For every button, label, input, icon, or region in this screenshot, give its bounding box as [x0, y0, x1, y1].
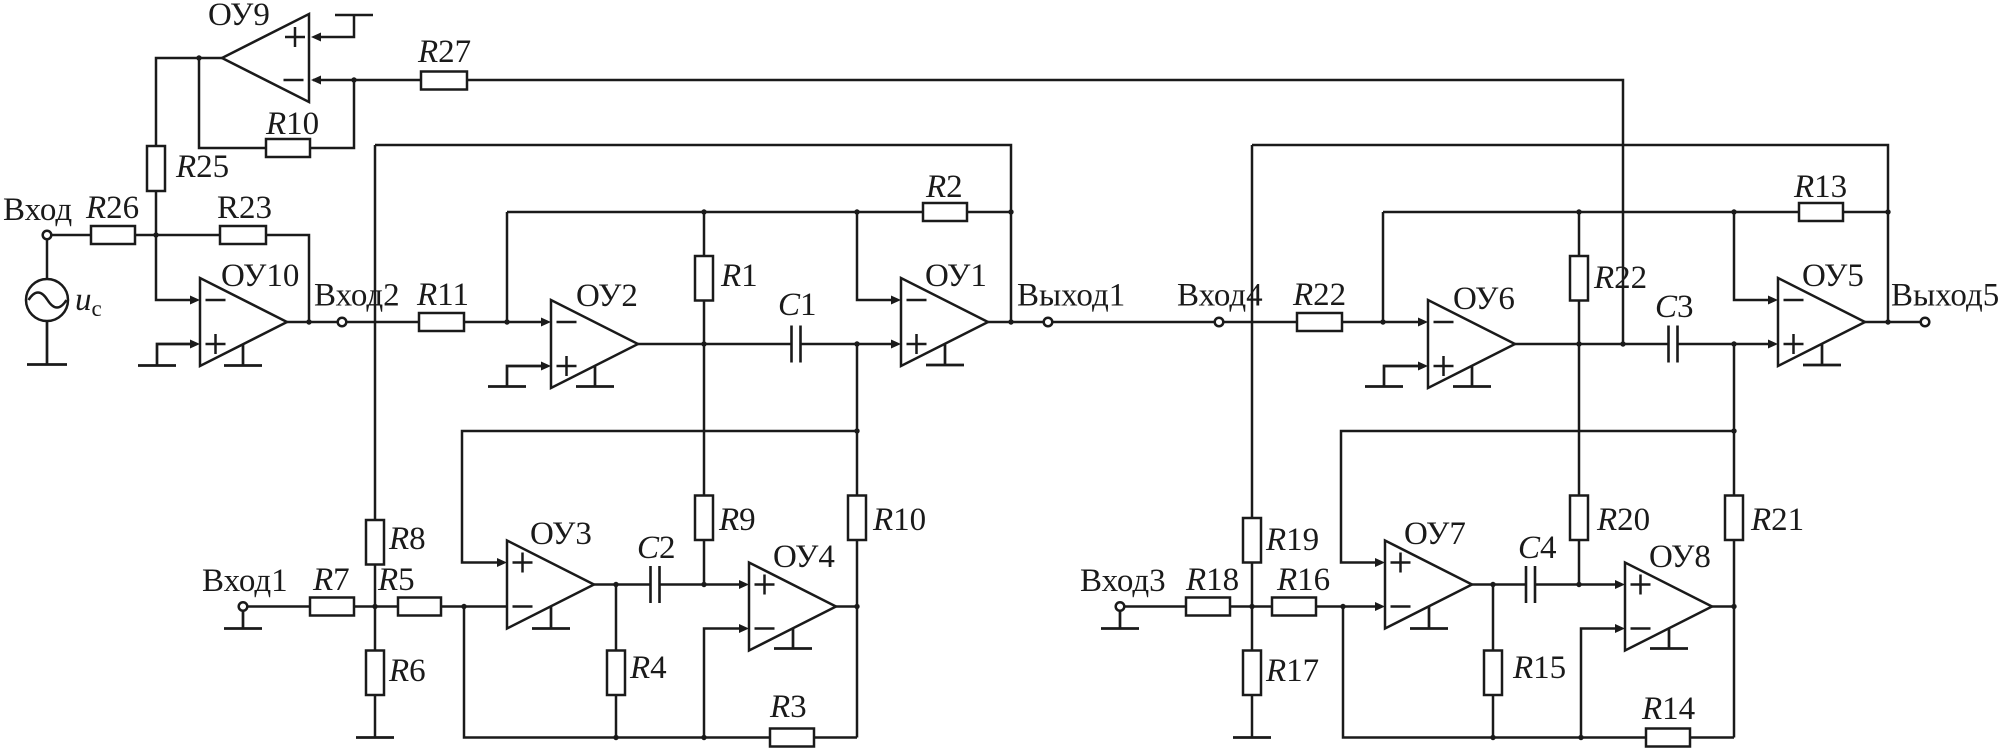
node OU5 output / R13 vertical	[1885, 319, 1890, 324]
resistor R5	[398, 598, 441, 616]
wire feedback to OU7 plus input	[1341, 431, 1734, 567]
resistor R18	[1186, 598, 1230, 616]
resistor R25	[147, 146, 165, 191]
svg-text:R20: R20	[1596, 502, 1650, 538]
wire R15 vertical	[1492, 585, 1495, 738]
label C3	[1655, 289, 1694, 325]
vertical R10 chain x=857	[856, 344, 859, 738]
node R25/input line	[153, 232, 158, 237]
node R19 bottom / input line	[1249, 604, 1254, 609]
vertical R21 chain x=1734	[1733, 344, 1736, 738]
wire OU3 output to C2	[594, 583, 651, 586]
vertical R19/R17 chain x=1252	[1251, 145, 1254, 738]
svg-text:Выход1: Выход1	[1017, 278, 1125, 314]
label R11	[416, 277, 469, 313]
label Vhod2	[314, 278, 400, 314]
svg-text:Выход5: Выход5	[1891, 278, 1999, 314]
node feedback / R10 vertical	[854, 428, 859, 433]
wire C2 to OU4 plus input	[660, 580, 750, 589]
ground under OU3	[532, 607, 570, 629]
wire OU9 minus input arrow	[311, 76, 321, 85]
wire node down to left rail	[464, 607, 857, 738]
op-amp U10 (OU10)	[200, 278, 287, 366]
svg-text:R26: R26	[85, 190, 139, 226]
wire R10 left leg	[199, 58, 266, 148]
op-amp U2 (OU2)	[551, 300, 638, 388]
label R4	[629, 650, 667, 686]
label OU4	[773, 539, 835, 575]
resistor R9	[695, 496, 713, 541]
label R23	[217, 190, 272, 226]
wire OU2 feedback vertical to top line	[506, 212, 509, 322]
ground under R17	[1233, 736, 1271, 739]
label R22 horizontal	[1292, 277, 1346, 313]
ground under OU8	[1650, 629, 1688, 649]
label R22 vertical	[1593, 260, 1647, 296]
op-amp U4 (OU4)	[749, 563, 836, 651]
vertical R22b/R20 chain x=1579	[1578, 212, 1581, 585]
svg-text:R7: R7	[312, 562, 350, 598]
svg-text:Вход1: Вход1	[202, 563, 288, 599]
svg-text:R23: R23	[217, 190, 272, 226]
label R9	[718, 502, 756, 538]
wire feedback to OU3 plus input	[462, 431, 857, 567]
wire OU5 minus branch from top line	[1734, 212, 1778, 305]
wire R10 right leg to OU9 minus node	[310, 80, 354, 148]
svg-text:C4: C4	[1518, 530, 1557, 566]
svg-text:R18: R18	[1185, 562, 1239, 598]
capacitor C2	[651, 566, 660, 603]
wire C3 to OU5 plus input	[1678, 340, 1779, 349]
ground step at OU10 plus input	[138, 340, 200, 366]
svg-text:uc: uc	[75, 282, 102, 321]
svg-text:R4: R4	[629, 650, 667, 686]
resistor R23	[220, 226, 266, 244]
svg-text:R19: R19	[1265, 522, 1319, 558]
resistor R21	[1725, 496, 1743, 541]
label OU6	[1453, 281, 1515, 317]
svg-text:R22: R22	[1292, 277, 1346, 313]
node R2 right / output vertical	[1008, 209, 1013, 214]
label R20	[1596, 502, 1650, 538]
wire OU8 minus branch to rail	[1581, 624, 1625, 738]
wire R16 to OU7 minus input	[1316, 602, 1385, 611]
svg-text:R16: R16	[1276, 562, 1330, 598]
svg-text:R22: R22	[1593, 260, 1647, 296]
label OU9	[208, 0, 270, 33]
label R17	[1265, 653, 1319, 689]
svg-text:R9: R9	[718, 502, 756, 538]
ground step at OU2 plus input	[488, 362, 551, 387]
terminal Vyhod5	[1921, 318, 1930, 327]
terminal Vhod1	[239, 602, 248, 611]
svg-text:ОУ6: ОУ6	[1453, 281, 1515, 317]
svg-text:R17: R17	[1265, 653, 1319, 689]
wire OU8 output to R21 vertical	[1712, 605, 1734, 608]
wire R7 to R5	[354, 605, 398, 608]
ground step at OU6 plus input	[1365, 362, 1428, 387]
capacitor C3	[1669, 326, 1678, 363]
node C4 right / R20 bottom	[1576, 582, 1581, 587]
resistor R19	[1243, 518, 1261, 563]
svg-text:ОУ9: ОУ9	[208, 0, 270, 33]
wire R23 right corner down to OU10 output	[266, 235, 309, 322]
wire mid feedback line y=145 left	[375, 145, 1011, 322]
resistor R2	[923, 203, 967, 221]
label R13	[1793, 169, 1847, 205]
node R1 top	[701, 209, 706, 214]
node R11 line / OU2 feedback	[504, 319, 509, 324]
ground under OU5	[1803, 345, 1841, 366]
label Vyhod1	[1017, 278, 1125, 314]
node OU1 minus branch top	[854, 209, 859, 214]
wire R25 bottom to input node	[155, 191, 158, 235]
ground under source uc	[27, 321, 67, 365]
label R2	[925, 169, 963, 205]
label Vhod	[3, 192, 72, 228]
label Vhod1	[202, 563, 288, 599]
wire R11 to OU2 minus input	[464, 318, 551, 327]
node OU10 output / R23 leg	[306, 319, 311, 324]
svg-text:R10: R10	[872, 502, 926, 538]
node input line / ground branch	[461, 604, 466, 609]
svg-text:ОУ8: ОУ8	[1649, 539, 1711, 575]
label R10 lower	[872, 502, 926, 538]
svg-text:R2: R2	[925, 169, 963, 205]
svg-text:R1: R1	[720, 258, 758, 294]
wire mid feedback line y=145 right	[1252, 145, 1888, 322]
svg-text:R8: R8	[388, 521, 426, 557]
resistor R14	[1646, 729, 1690, 747]
node junction at R27/OU9 minus	[351, 77, 356, 82]
node C1 right / R10 vertical	[854, 341, 859, 346]
terminal Vyhod1	[1044, 318, 1053, 327]
svg-text:C1: C1	[778, 287, 817, 323]
ground under Vhod3	[1101, 611, 1139, 629]
label OU3	[530, 516, 592, 552]
op-amp U6 (OU6)	[1428, 300, 1515, 388]
resistor R11	[419, 313, 464, 331]
svg-text:R3: R3	[769, 689, 807, 725]
label R27	[417, 34, 471, 70]
op-amp U9 (OU9, left-pointing)	[222, 14, 309, 102]
wire R5 to OU3 minus input	[441, 605, 507, 608]
wire node down to right rail	[1343, 607, 1734, 738]
wire rail gap across R3 is covered by body	[0, 0, 1, 1]
svg-text:ОУ3: ОУ3	[530, 516, 592, 552]
node R22 vertical top	[1576, 209, 1581, 214]
wire Vhod1 to R7	[247, 605, 310, 608]
vertical R1 chain x=704	[703, 212, 706, 585]
svg-text:ОУ10: ОУ10	[221, 258, 299, 294]
terminal Vhod	[43, 231, 52, 240]
svg-text:R27: R27	[417, 34, 471, 70]
svg-text:ОУ2: ОУ2	[576, 278, 638, 314]
label R16	[1276, 562, 1330, 598]
source uc sine generator	[26, 239, 68, 321]
label R26	[85, 190, 139, 226]
resistor R26	[91, 226, 135, 244]
ground under OU2	[576, 366, 614, 387]
terminal Vhod4	[1215, 318, 1224, 327]
node at OU9 output / R10 branch	[196, 55, 201, 60]
node OU7 output / R15 branch	[1490, 582, 1495, 587]
svg-text:R15: R15	[1512, 650, 1566, 686]
svg-text:C2: C2	[637, 530, 676, 566]
resistor R22 (horizontal)	[1297, 313, 1342, 331]
resistor R7	[310, 598, 354, 616]
svg-text:R10: R10	[265, 106, 319, 142]
node OU6 feedback branch	[1380, 319, 1385, 324]
wire C4 to OU8 plus input	[1535, 580, 1625, 589]
resistor R4	[607, 651, 625, 696]
wire top line C left (y=212)	[507, 211, 1011, 214]
resistor R27	[421, 72, 467, 90]
label R7	[312, 562, 350, 598]
label R25	[175, 149, 229, 185]
capacitor C1	[792, 326, 801, 363]
svg-text:R11: R11	[416, 277, 469, 313]
label R1	[720, 258, 758, 294]
resistor R10 (lower)	[848, 496, 866, 541]
node input line / rail branch	[1340, 604, 1345, 609]
node OU3 output / R4 branch	[613, 582, 618, 587]
node OU8 output	[1731, 604, 1736, 609]
resistor R20	[1570, 496, 1588, 541]
resistor R1	[695, 256, 713, 301]
wire Vyhod1 to Vhod4	[1052, 321, 1214, 324]
wire OU5 output to terminal	[1865, 321, 1921, 324]
op-amp U5 (OU5)	[1778, 278, 1865, 366]
node R13 right / output vertical	[1885, 209, 1890, 214]
label OU1	[925, 258, 987, 294]
node R8 bottom / input line	[372, 604, 377, 609]
svg-text:Вход3: Вход3	[1080, 563, 1166, 599]
wire OU1 minus branch from top line	[857, 212, 901, 305]
ground under OU10	[224, 345, 262, 366]
svg-text:R21: R21	[1750, 502, 1804, 538]
svg-text:R14: R14	[1641, 691, 1695, 727]
node R4 bottom / rail	[613, 735, 618, 740]
ground (flipped bar) at OU9 plus input	[311, 15, 373, 42]
label OU2	[576, 278, 638, 314]
node C2 right / R9 bottom	[701, 582, 706, 587]
resistor R6	[366, 651, 384, 696]
terminal Vhod3	[1116, 602, 1125, 611]
node R15 bottom / rail	[1490, 735, 1495, 740]
label OU5	[1802, 258, 1864, 294]
node OU4 output	[854, 604, 859, 609]
label R6	[388, 653, 426, 689]
ground under OU4	[774, 629, 812, 649]
node R1 / OU2 output line	[701, 341, 706, 346]
label Vhod3	[1080, 563, 1166, 599]
wire Vhod2 to R11	[346, 321, 419, 324]
resistor R10 (upper)	[266, 139, 310, 157]
wire R4 vertical	[615, 585, 618, 738]
label R3	[769, 689, 807, 725]
svg-text:ОУ5: ОУ5	[1802, 258, 1864, 294]
svg-text:C3: C3	[1655, 289, 1694, 325]
svg-text:Вход4: Вход4	[1177, 278, 1263, 314]
label R10 upper	[265, 106, 319, 142]
ground under OU6	[1453, 366, 1491, 387]
label R8	[388, 521, 426, 557]
wire R26 to R23	[135, 234, 220, 237]
label C2	[637, 530, 676, 566]
resistor R17	[1243, 651, 1261, 696]
ground under Vhod1	[224, 611, 262, 629]
node C3 right / R21 vertical	[1731, 341, 1736, 346]
wire Vhod to R26	[51, 234, 91, 237]
wire OU2 output line to C1	[638, 343, 792, 346]
wire OU10 output to terminal	[287, 321, 338, 324]
node OU4 minus branch / rail	[701, 735, 706, 740]
wire OU7 output to C4	[1472, 583, 1526, 586]
resistor R22 (vertical)	[1570, 256, 1588, 301]
node R27 vertical / output line	[1620, 341, 1625, 346]
node OU8 minus branch / rail	[1578, 735, 1583, 740]
svg-text:Вход: Вход	[3, 192, 72, 228]
svg-text:R6: R6	[388, 653, 426, 689]
ground under R6	[356, 736, 394, 739]
ground under OU1	[926, 345, 964, 366]
terminal Vhod2	[338, 318, 347, 327]
resistor R13	[1799, 203, 1843, 221]
svg-text:R25: R25	[175, 149, 229, 185]
label C1	[778, 287, 817, 323]
label C4	[1518, 530, 1557, 566]
svg-text:ОУ1: ОУ1	[925, 258, 987, 294]
svg-text:Вход2: Вход2	[314, 278, 400, 314]
label Vyhod5	[1891, 278, 1999, 314]
wire OU6 output line to C3	[1515, 343, 1669, 346]
label Vhod4	[1177, 278, 1263, 314]
svg-text:ОУ4: ОУ4	[773, 539, 835, 575]
op-amp U7 (OU7)	[1385, 541, 1472, 629]
wire C1 to OU1 plus input	[801, 340, 902, 349]
svg-text:R13: R13	[1793, 169, 1847, 205]
ground under OU7	[1410, 607, 1448, 629]
wire R18 to R16	[1230, 605, 1272, 608]
resistor R3	[770, 729, 814, 747]
capacitor C4	[1526, 566, 1535, 603]
node OU5 minus branch top	[1731, 209, 1736, 214]
label R14	[1641, 691, 1695, 727]
label R18	[1185, 562, 1239, 598]
node R22 vertical / output line	[1576, 341, 1581, 346]
label R21	[1750, 502, 1804, 538]
svg-text:R5: R5	[377, 562, 415, 598]
resistor R8	[366, 520, 384, 565]
vertical R8/R6 chain x=375	[374, 145, 377, 738]
wire OU4 minus branch to rail	[704, 624, 749, 738]
wire OU4 output to R10 vertical	[836, 605, 857, 608]
node feedback / R21 vertical	[1731, 428, 1736, 433]
wire R22 to OU6 minus input	[1342, 318, 1428, 327]
wire Vhod3 to R18	[1124, 605, 1186, 608]
wire R27 feedback line from OU9 minus input to x=1623	[313, 80, 1623, 344]
wire OU1 output to terminal	[988, 321, 1044, 324]
wire top line C right (y=212)	[1383, 211, 1888, 214]
op-amp U3 (OU3)	[507, 541, 594, 629]
wire node down to OU10 minus input	[156, 235, 200, 305]
label OU10	[221, 258, 299, 294]
node OU1 output / R2 vertical	[1008, 319, 1013, 324]
label R15	[1512, 650, 1566, 686]
op-amp U1 (OU1)	[901, 278, 988, 366]
wire Vhod4 to R22	[1223, 321, 1297, 324]
resistor R15	[1484, 651, 1502, 696]
label uc source voltage	[75, 282, 102, 321]
resistor R16	[1272, 598, 1316, 616]
label R19	[1265, 522, 1319, 558]
label R5	[377, 562, 415, 598]
wire OU9 output to R25 top	[156, 58, 222, 146]
svg-text:ОУ7: ОУ7	[1404, 516, 1466, 552]
label OU8	[1649, 539, 1711, 575]
op-amp U8 (OU8)	[1625, 563, 1712, 651]
label OU7	[1404, 516, 1466, 552]
wire OU6 feedback vertical to top line	[1382, 212, 1385, 322]
